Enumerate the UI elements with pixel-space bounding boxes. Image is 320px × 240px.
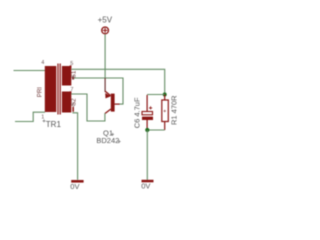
svg-text:7: 7	[70, 87, 73, 93]
wire TR1 pin 4 (top left)	[14, 70, 46, 72]
+5V supply symbol	[102, 27, 109, 34]
wire S1 top to R1/C6 junction	[72, 69, 165, 94]
wire bottom rail C6 to R1	[147, 129, 164, 131]
BD242 origin cross	[118, 140, 121, 143]
transistor Q1 (PNP, mirrored)	[105, 78, 120, 114]
wire TR1 pin 1 (bottom left)	[15, 112, 45, 121]
svg-text:4: 4	[41, 60, 44, 66]
svg-text:TR1: TR1	[46, 120, 62, 129]
transformer TR1 primary winding	[45, 66, 57, 112]
transformer secondary winding S1	[62, 66, 71, 86]
TR1 origin cross	[43, 119, 46, 122]
svg-text:C6 4.7uF: C6 4.7uF	[132, 97, 141, 128]
junction node R1/C6 top	[163, 93, 167, 97]
Q1 origin cross	[111, 133, 114, 136]
svg-text:R1 470R: R1 470R	[169, 95, 178, 125]
svg-text:PRI: PRI	[36, 87, 43, 98]
capacitor C6 (polarized)	[142, 95, 153, 129]
svg-text:5: 5	[70, 61, 73, 67]
pin stub S2 bottom	[72, 107, 74, 112]
svg-text:S1: S1	[71, 70, 78, 78]
junction node C6 bottom	[145, 128, 149, 132]
svg-text:BD242: BD242	[96, 136, 119, 145]
pin stub S1 top	[70, 65, 72, 68]
wire S1 bottom to Q1 base	[74, 78, 123, 104]
transformer core lines	[58, 64, 60, 115]
wire junction down to 0V right	[146, 130, 148, 180]
ground symbol 0V right	[142, 180, 154, 183]
svg-text:0V: 0V	[70, 182, 79, 191]
resistor R1	[162, 95, 169, 131]
pin stub S2 top	[70, 91, 72, 93]
wire Q1 collector to S2 top	[71, 94, 105, 121]
wire junction to C6 top	[147, 94, 165, 96]
svg-text:+5V: +5V	[98, 16, 113, 25]
wire +5V down to Q1 emitter	[104, 34, 106, 78]
svg-text:S2: S2	[71, 98, 78, 106]
pin stub S1 bottom	[72, 77, 74, 80]
ground symbol 0V left	[71, 180, 83, 183]
transformer secondary winding S2	[62, 92, 71, 113]
svg-text:0V: 0V	[141, 182, 150, 191]
wire S2 bottom to 0V left	[72, 113, 77, 180]
